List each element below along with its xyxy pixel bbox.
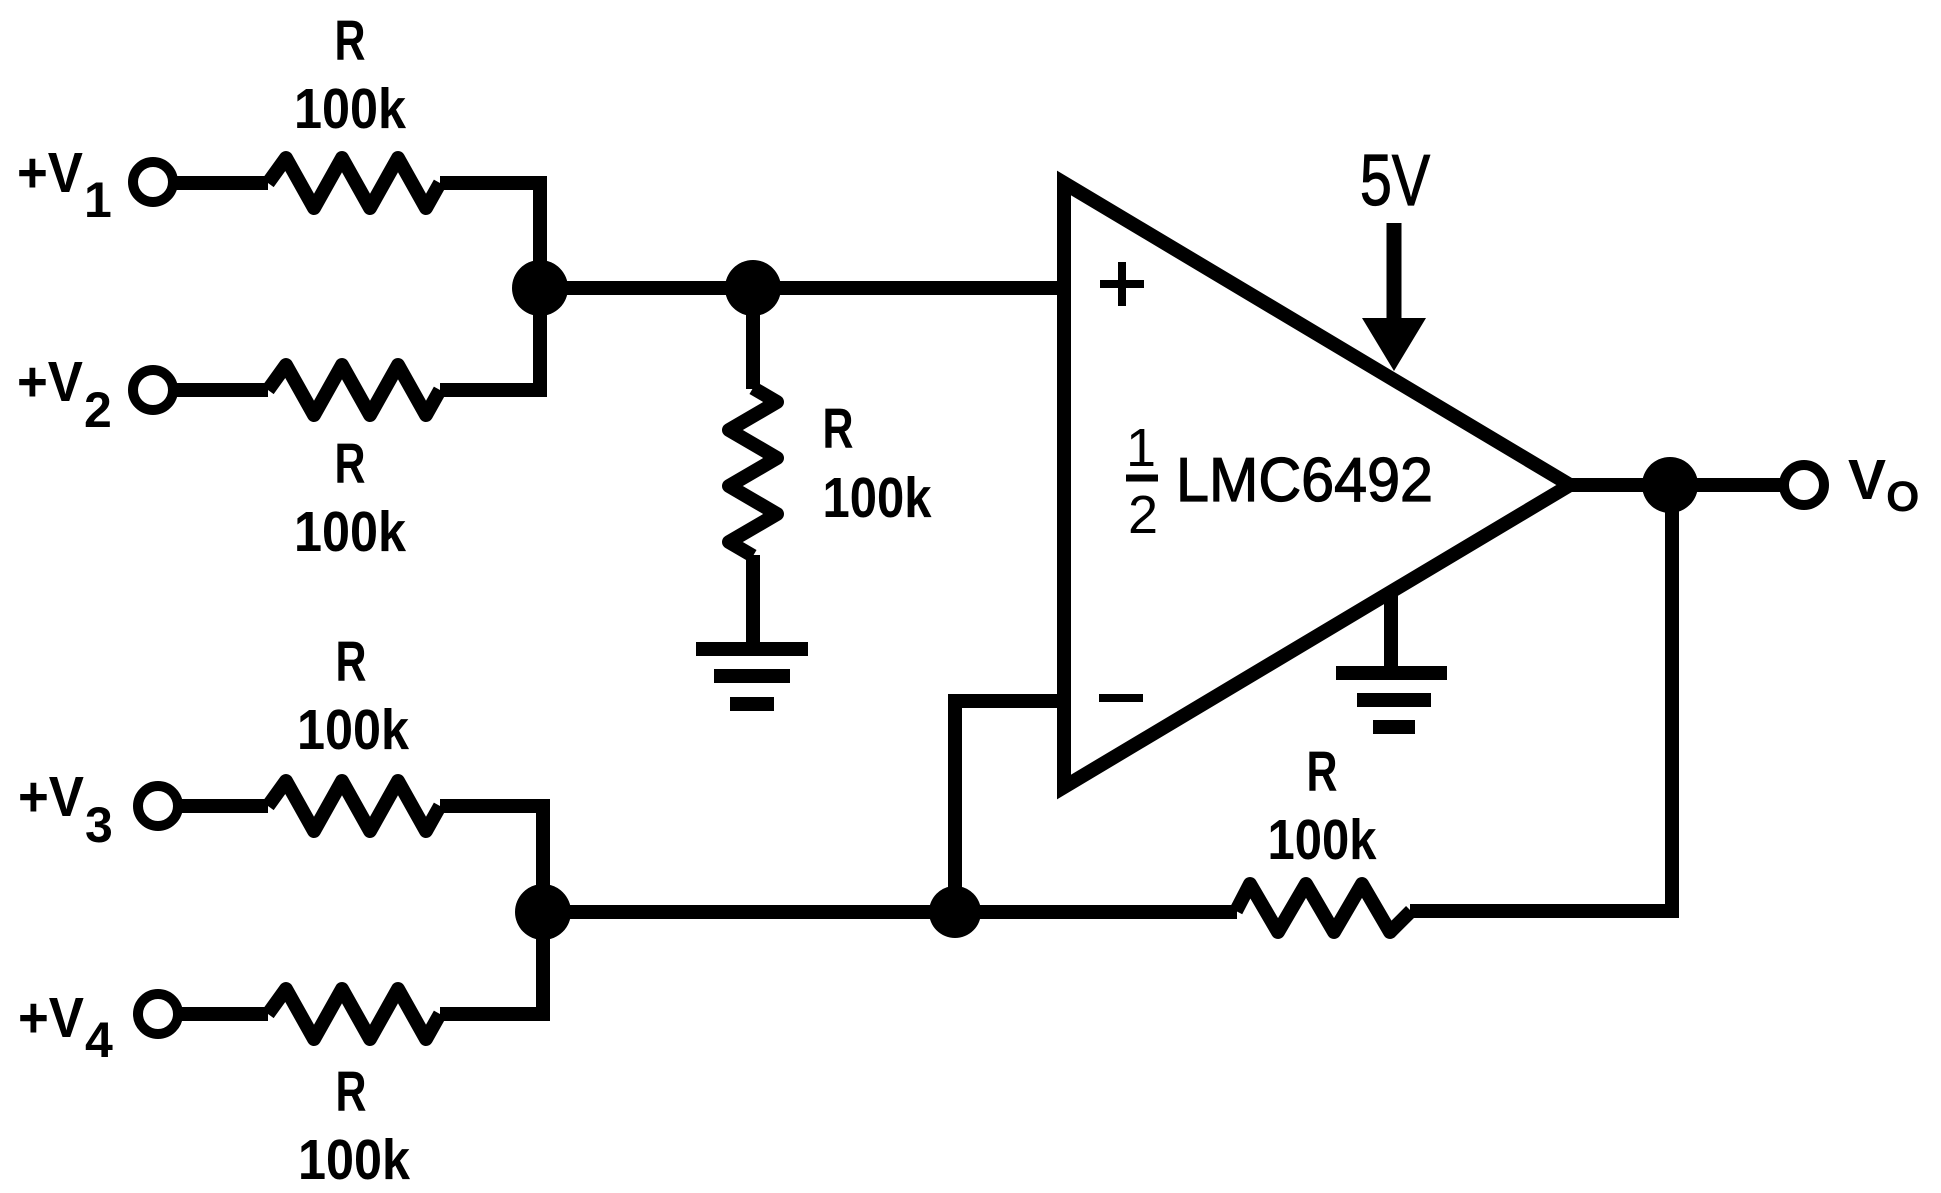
svg-text:+V: +V [17,350,83,414]
node C junction dot [515,884,571,940]
op-amp U1 triangle [1064,183,1570,787]
svg-text:R: R [336,1060,367,1124]
svg-text:2: 2 [84,382,112,438]
resistor R2 100k [268,365,440,415]
resistor R5 100k [268,989,440,1039]
svg-text:2: 2 [1128,485,1158,545]
svg-text:3: 3 [85,797,113,853]
wire R2 to node A [440,288,540,390]
wire R3 to ground [746,555,760,644]
node A junction dot [512,260,568,316]
svg-text:LMC6492: LMC6492 [1176,446,1433,515]
terminal +V4 [138,994,178,1034]
svg-text:O: O [1886,473,1919,521]
svg-text:+V: +V [18,986,84,1050]
svg-text:+V: +V [17,141,83,205]
wire node B down to R3 [746,288,760,389]
svg-text:R: R [335,9,366,73]
svg-text:+V: +V [18,765,84,829]
wire node B to op-amp + input [753,281,1064,295]
svg-text:1: 1 [1126,418,1156,478]
svg-text:1: 1 [84,172,112,228]
wire node D up to op-amp - input [955,701,1064,912]
svg-text:100k: 100k [298,1128,410,1192]
wire V2 to R2 [175,383,268,397]
svg-text:100k: 100k [1268,808,1377,872]
op-amp - input symbol [1099,694,1143,702]
wire V3 to R4 [180,799,268,813]
terminal +V3 [138,786,178,826]
resistor R1 100k [268,158,440,208]
svg-text:100k: 100k [294,500,406,564]
ground GND1 [696,649,808,704]
terminal +V1 [133,162,173,202]
node B junction dot [725,260,781,316]
ground GND2 [1336,673,1447,727]
wire R6 to output node [1410,485,1672,911]
op-amp ground stub [1384,592,1398,668]
wire V4 to R5 [180,1007,268,1021]
resistor R4 100k [268,781,440,831]
terminal Vo [1784,465,1824,505]
svg-text:R: R [1307,740,1338,804]
svg-text:4: 4 [85,1012,113,1068]
wire node A to node B [540,281,753,295]
wire op-amp output [1570,478,1782,492]
node D junction dot [929,886,981,938]
svg-text:100k: 100k [823,466,932,530]
wire V1 to R1 [175,176,268,190]
svg-text:100k: 100k [294,77,406,141]
wire R4 to node C [440,806,543,912]
svg-text:5V: 5V [1360,141,1430,221]
op-amp + input symbol [1100,262,1144,306]
terminal +V2 [133,370,173,410]
svg-text:R: R [336,630,367,694]
resistor R6 100k feedback [1236,884,1411,932]
wire node C to node D [543,905,1237,919]
wire R5 to node C [440,912,543,1014]
svg-text:100k: 100k [297,698,409,762]
5V supply arrow [1387,223,1402,320]
svg-text:V: V [1848,448,1886,512]
node E output junction dot [1642,457,1698,513]
svg-text:R: R [335,432,366,496]
resistor R3 100k (to ground) [729,388,777,556]
wire R1 to node A [440,183,540,288]
svg-text:R: R [823,397,854,461]
